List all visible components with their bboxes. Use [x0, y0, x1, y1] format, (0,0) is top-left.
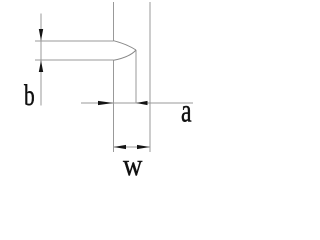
arrowhead up (dimension b bottom)	[39, 60, 43, 72]
arrowhead down (dimension b top)	[39, 29, 43, 41]
wire: left shank side upper (x=113.5)	[113, 2, 115, 41]
wire: blade top edge (horizontal y=41)	[35, 40, 114, 42]
wire: blade bottom edge (horizontal y=60)	[35, 59, 114, 61]
wire: right shank side / w extension (x=150)	[149, 2, 151, 152]
wire: left shank side lower / w extension (x=113.5)	[113, 60, 115, 152]
wire: dimension line a (horizontal y=103)	[81, 102, 193, 104]
wire: rounded tip upper curve	[114, 41, 137, 50]
wire: rounded tip lower curve	[114, 50, 137, 60]
arrowhead left (dimension a right)	[136, 101, 147, 105]
arrowhead right (dimension a left)	[98, 101, 113, 105]
wire: tip extension vertical (x=136)	[135, 50, 137, 103]
arrowhead right (dimension w right)	[137, 145, 150, 149]
svg-text:w: w	[123, 147, 143, 182]
wire: dimension line w (horizontal y=147)	[114, 146, 151, 148]
svg-text:b: b	[24, 79, 35, 112]
wire: dimension line b (vertical at x=41)	[40, 14, 42, 106]
arrowhead left (dimension w left)	[114, 145, 126, 149]
svg-text:a: a	[181, 93, 192, 129]
